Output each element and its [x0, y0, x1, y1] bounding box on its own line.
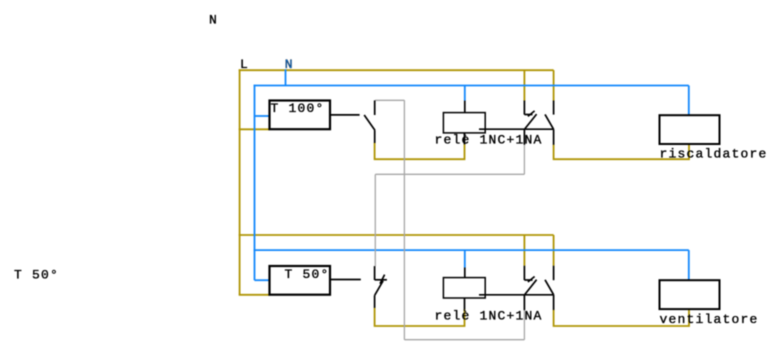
svg-text:relè 1NC+1NA: relè 1NC+1NA: [435, 132, 543, 147]
svg-text:T 100°: T 100°: [271, 101, 325, 116]
svg-text:N: N: [285, 57, 294, 72]
svg-text:relè 1NC+1NA: relè 1NC+1NA: [435, 309, 543, 324]
svg-text:riscaldatore: riscaldatore: [660, 147, 768, 162]
svg-text:ventilatore: ventilatore: [660, 312, 759, 327]
svg-text:T 50°: T 50°: [285, 267, 330, 282]
svg-text:L: L: [240, 57, 249, 72]
svg-text:N: N: [209, 13, 218, 28]
svg-text:T 50°: T 50°: [14, 268, 59, 283]
